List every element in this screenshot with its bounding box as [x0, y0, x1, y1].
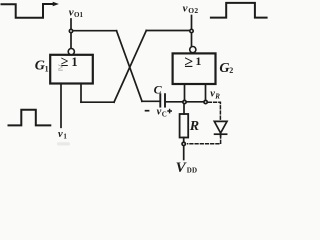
wire G1 input 2 vertical — [80, 84, 82, 103]
svg-text:v: v — [183, 3, 188, 15]
label - vC + — [145, 110, 150, 112]
node vO1 — [69, 29, 74, 34]
wire vO2 stub — [191, 16, 193, 47]
dashed wire vR to diode — [209, 102, 221, 119]
wire vO1 to cross-coupling — [71, 30, 117, 32]
svg-text:1: 1 — [195, 54, 201, 68]
gate G2 body (IEC OR box) — [173, 53, 216, 84]
wire diagonal vO2 to G1 input — [114, 31, 146, 103]
resistor R body — [180, 114, 189, 138]
wire G2 input 1 — [184, 84, 186, 102]
node vR — [203, 100, 208, 105]
wire G1 input 1 (v1) — [60, 84, 62, 128]
svg-text:1: 1 — [71, 55, 77, 69]
gate G2 inversion bubble — [190, 47, 196, 53]
svg-text:R: R — [189, 119, 199, 134]
svg-text:v: v — [58, 129, 63, 140]
wire capacitor left lead — [142, 100, 159, 102]
wire to G1 input 2 — [81, 101, 114, 103]
svg-text:R: R — [214, 92, 220, 100]
svg-text:O1: O1 — [74, 11, 83, 19]
svg-text:C: C — [154, 83, 163, 97]
wire vO2 to cross-coupling — [146, 30, 191, 32]
wire diagonal vO1 to capacitor — [117, 31, 143, 102]
svg-text:≥: ≥ — [184, 54, 193, 71]
svg-text:1: 1 — [63, 132, 67, 140]
wire VDD stub — [183, 146, 185, 160]
svg-text:G: G — [35, 59, 45, 74]
gate G1 body (IEC OR box) — [50, 55, 93, 84]
wire capacitor right lead to vR — [166, 101, 206, 103]
wire vO1 stub — [70, 19, 72, 48]
wire G2 input 2 — [205, 84, 207, 102]
svg-text:C: C — [162, 110, 167, 118]
junction node at C / R — [182, 100, 187, 105]
input pulse waveform v1 (bottom-left) — [9, 110, 51, 126]
wire junction to resistor top — [183, 102, 185, 114]
svg-text:O2: O2 — [188, 6, 198, 15]
node vO2 — [189, 29, 194, 34]
dashed wire diode to VDD node — [188, 135, 221, 144]
node below resistor (VDD) — [181, 141, 186, 146]
wire resistor bottom to node — [183, 138, 185, 142]
output waveform vO2 (top-right positive pulse) — [211, 3, 267, 18]
svg-text:2: 2 — [229, 66, 233, 75]
capacitor C plates — [160, 94, 165, 106]
svg-text:G: G — [219, 61, 229, 76]
svg-text:≥: ≥ — [58, 63, 64, 74]
svg-text:1: 1 — [45, 64, 49, 73]
diode D (triangle + cathode bar) — [214, 121, 227, 136]
gate G1 inversion bubble — [68, 49, 74, 55]
svg-text:DD: DD — [187, 166, 198, 174]
input trigger waveform (top-left negative pulse) — [2, 2, 59, 18]
